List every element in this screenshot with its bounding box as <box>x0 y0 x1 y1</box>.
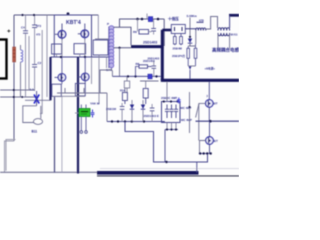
bus B+ horizontal y47 <box>131 45 164 48</box>
capacitor blue right of IC <box>91 110 95 118</box>
box small under wire <box>124 77 129 93</box>
dots on box top <box>163 100 179 102</box>
svg-text:BT: BT <box>214 102 218 106</box>
svg-text:2SB3C 4MP: 2SB3C 4MP <box>161 96 177 100</box>
wire left vertical rail <box>13 15 15 141</box>
diode D3 blue on wire <box>148 74 152 79</box>
IC U1 green <box>79 109 90 117</box>
diode D1 blue on wire <box>148 17 152 22</box>
node dot y121 <box>209 120 212 123</box>
wire bottom y100 <box>25 99 51 101</box>
svg-text:B11: B11 <box>32 130 38 134</box>
svg-text:2SD1403: 2SD1403 <box>143 59 155 63</box>
wire vertical x42 <box>40 30 42 114</box>
transformer T2 primary <box>218 28 230 31</box>
wire top horizontal <box>14 14 98 16</box>
wire bus to Q5 <box>208 82 210 100</box>
diode D4 <box>130 100 134 122</box>
svg-text:R8: R8 <box>136 62 140 66</box>
svg-text:2SB1P4方: 2SB1P4方 <box>172 54 185 58</box>
wire x165 down <box>164 130 166 163</box>
wire y93 <box>57 88 107 93</box>
node dots top wire <box>21 12 69 16</box>
stub above wire <box>146 14 148 20</box>
wire bottom y97 <box>0 96 37 98</box>
capacitor C7 <box>120 103 125 122</box>
transistor Q4 <box>78 57 89 83</box>
bar top right corner <box>229 14 239 17</box>
wire connect electrodes <box>188 44 195 66</box>
wire y121.5 <box>107 121 165 123</box>
svg-text:473: 473 <box>36 24 41 28</box>
inductor L1 (blue curls) <box>21 45 23 97</box>
Q5 base wire <box>196 103 206 140</box>
wire jump over <box>206 17 218 30</box>
wire vertical x62 faint <box>61 96 63 172</box>
node dots top-right wire <box>136 18 159 21</box>
node dots row <box>199 152 212 154</box>
wire x164 down to bus1 <box>163 19 165 46</box>
box under Q2 <box>74 40 86 58</box>
bus vertical x163.5 <box>161 30 164 81</box>
dots wire y153.5 <box>199 153 212 155</box>
node dot x190 <box>189 36 191 38</box>
capacitor C1 <box>23 15 28 97</box>
box KBT4 <box>54 15 91 57</box>
svg-text:R16: R16 <box>120 89 126 93</box>
wire x119.5 down <box>119 48 121 77</box>
node dot x165 bottom <box>165 161 167 163</box>
diode D5 <box>141 100 145 122</box>
svg-text:BU11: BU11 <box>231 33 238 37</box>
capacitor C6 <box>152 61 157 76</box>
wire coil bottom path <box>100 68 111 93</box>
resistor R16 <box>122 88 127 104</box>
Q6 base wire <box>200 141 206 154</box>
caps box to wire y129.5 <box>167 123 176 130</box>
box under Q4 <box>75 83 85 96</box>
wire vertical to bottom bar <box>196 162 198 173</box>
rail mid thick <box>77 57 79 174</box>
bus B- horizontal y78.8 <box>161 79 239 82</box>
svg-text:高频耦合电感: 高频耦合电感 <box>212 47 239 54</box>
box under Q1 <box>52 40 62 57</box>
wire y76.6 <box>112 75 160 77</box>
diode D2 <box>188 39 192 47</box>
node dot x189.5 <box>188 106 190 108</box>
svg-text:3.3: 3.3 <box>30 88 35 92</box>
node dots y129.5 <box>166 128 177 130</box>
vertical grey x189.5 <box>189 92 191 133</box>
svg-text:+B电源+: +B电源+ <box>205 67 216 71</box>
wire step bottom-left <box>5 140 16 173</box>
capacitor C4 <box>34 67 36 91</box>
svg-text:P: P <box>107 22 109 26</box>
wire mid y57 <box>51 56 109 58</box>
wire x107 down <box>106 93 108 122</box>
svg-text:S.08Km: S.08Km <box>187 14 198 18</box>
black input box <box>0 40 7 79</box>
svg-text:十倍压: 十倍压 <box>168 16 179 21</box>
inductor L2 bumps <box>185 28 206 31</box>
step wire center-bottom <box>125 122 208 163</box>
svg-text:2SB1M: 2SB1M <box>106 107 117 111</box>
node dots y57 <box>60 56 86 58</box>
wire coil mid-left input <box>95 38 109 40</box>
svg-text:2SD1403: 2SD1403 <box>143 41 157 45</box>
wire coil right tap to bus <box>114 47 132 49</box>
transistor Q1 <box>55 24 66 41</box>
resistor R1 (red body) <box>13 47 16 62</box>
node dots left rails <box>13 89 24 98</box>
wire vertical x99 <box>98 55 100 104</box>
IC pins to circles <box>80 117 87 134</box>
plus mark <box>7 30 10 33</box>
svg-text:R6: R6 <box>133 30 137 34</box>
svg-text:C4: C4 <box>21 26 25 30</box>
bus stub to box <box>162 29 171 32</box>
wire vertical x47 <box>46 15 48 97</box>
wire vertical x54.5 to bottom <box>54 97 56 172</box>
capacitor C5 <box>151 19 156 35</box>
node dots y76.6 <box>127 75 158 77</box>
svg-text:2SB4M: 2SB4M <box>173 46 183 50</box>
faint ghost line <box>100 168 239 170</box>
wire vertical x91.5 <box>91 57 93 84</box>
wire resistor lead <box>13 62 15 64</box>
snubber R8 <box>136 65 152 77</box>
capacitor C3 <box>32 15 37 65</box>
node dot tap <box>118 47 120 49</box>
box under Q3 <box>52 84 62 96</box>
lead elements under box <box>173 34 182 46</box>
cap bank inside <box>165 105 178 119</box>
svg-text:2SD1403 E: 2SD1403 E <box>144 114 159 118</box>
wire under-bus y81 <box>140 80 159 82</box>
T2 legs <box>218 16 230 49</box>
resistor R15 <box>143 81 148 104</box>
box right B3 <box>93 15 108 55</box>
svg-text:473: 473 <box>36 32 41 36</box>
transistor Q5 <box>206 100 214 121</box>
IC top stubs <box>81 105 86 109</box>
transformer T1 winding <box>109 26 114 68</box>
transformer T2 secondary <box>218 33 230 36</box>
capacitor C8 <box>150 104 155 122</box>
wire coil top to top wire <box>114 19 165 45</box>
wire vertical x29 <box>28 36 30 90</box>
wire bottom grey line <box>0 171 97 173</box>
svg-text:C2: C2 <box>38 61 42 65</box>
diac X symbol <box>34 91 39 106</box>
box C-filter <box>162 102 181 123</box>
wire coil to rail jog <box>111 70 112 77</box>
wire y129.5 <box>165 129 178 131</box>
resistor R6 loop <box>138 19 152 34</box>
wire from bus2 to box <box>166 82 168 102</box>
capacitor C2 <box>32 65 37 68</box>
capacitor blue small <box>177 98 181 104</box>
svg-text:YAK M: YAK M <box>90 101 100 105</box>
wire bottom y90 <box>0 89 35 91</box>
box multiplier <box>171 25 185 34</box>
wire thin bottom line <box>97 175 239 177</box>
transistor Q2 <box>78 24 89 40</box>
wire x190 vertical <box>189 18 191 39</box>
svg-text:MC 4MP: MC 4MP <box>181 118 192 122</box>
node dots y121.5 <box>111 120 145 122</box>
wire into IC <box>75 112 79 114</box>
arrow mark <box>189 67 192 80</box>
transistor Q6 <box>206 121 214 153</box>
electrode E2 <box>194 44 197 66</box>
wire y121 right <box>196 120 240 122</box>
lamp loop <box>23 106 43 125</box>
wire box bottoms <box>52 95 85 97</box>
mark under 478 <box>197 21 204 23</box>
rail left thick <box>49 57 51 100</box>
wire vertical x106.5 <box>106 57 108 68</box>
svg-text:BT: BT <box>214 139 218 143</box>
wire coil1 left drop <box>195 31 197 45</box>
electrode E1 <box>187 46 190 66</box>
svg-text:KBT'4: KBT'4 <box>66 20 81 26</box>
bus bottom bar <box>97 171 199 175</box>
transistor Q3 <box>55 57 66 84</box>
